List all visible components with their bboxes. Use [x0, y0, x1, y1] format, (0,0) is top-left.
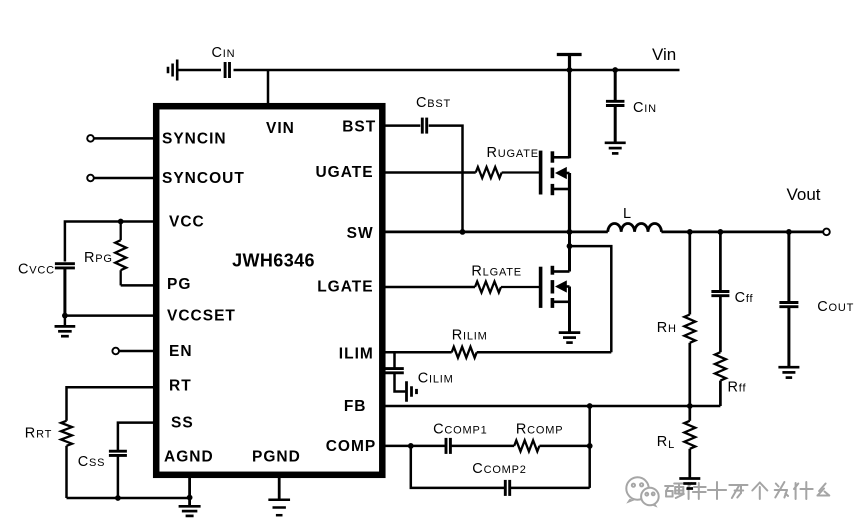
- capacitor Cff: [711, 232, 753, 352]
- wire ILIM sense to SW node: [570, 246, 612, 352]
- node CSS / ground rail: [115, 495, 121, 501]
- pin SS label: [171, 415, 194, 432]
- svg-text:RLGATE: RLGATE: [471, 264, 522, 280]
- wire VCC pin to CVCC branch: [65, 222, 156, 262]
- net label Vin: [652, 45, 676, 64]
- wire RT to RRT: [67, 387, 157, 421]
- resistor RCOMP: [514, 422, 590, 452]
- pin COMP label: [326, 438, 377, 455]
- ground (CIN bypass): [605, 143, 626, 154]
- svg-text:VCCSET: VCCSET: [167, 308, 236, 325]
- svg-text:LGATE: LGATE: [317, 279, 373, 296]
- ground (AGND): [179, 506, 201, 516]
- wire analog ground rail: [67, 497, 190, 500]
- resistor Rff: [715, 352, 747, 406]
- svg-text:RT: RT: [169, 378, 192, 395]
- svg-text:SS: SS: [171, 415, 194, 432]
- svg-text:Vin: Vin: [652, 45, 676, 64]
- svg-text:JWH6346: JWH6346: [232, 251, 315, 271]
- node Vout / COUT: [786, 229, 792, 235]
- wire COMP pin: [382, 445, 446, 448]
- resistor RILIM: [452, 328, 612, 358]
- net label Vout: [787, 185, 821, 204]
- pin BST label: [342, 118, 376, 135]
- svg-text:SYNCIN: SYNCIN: [162, 131, 227, 148]
- node RCOMP / comp net: [587, 443, 593, 449]
- svg-text:VIN: VIN: [266, 120, 295, 137]
- pin UGATE label: [315, 164, 373, 181]
- svg-text:SYNCOUT: SYNCOUT: [162, 170, 245, 187]
- capacitor CIN (top input): [212, 45, 236, 78]
- wire LGATE pin: [382, 286, 475, 289]
- svg-text:RRT: RRT: [25, 426, 52, 442]
- pin SYNCIN label: [162, 131, 227, 148]
- node Vin rail / CIN bypass: [612, 67, 618, 73]
- wire top Vin rail: [234, 69, 680, 72]
- node AGND junction: [187, 495, 193, 501]
- ground (PGND): [268, 500, 290, 515]
- wire PGND pin stem: [278, 474, 281, 500]
- resistor RPG: [84, 222, 126, 286]
- svg-text:CCOMP1: CCOMP1: [433, 422, 487, 438]
- svg-text:CIN: CIN: [633, 100, 657, 116]
- pin SW label: [347, 225, 374, 242]
- node EN terminal: [112, 348, 119, 355]
- transistor Q2 low-side NMOS: [541, 266, 570, 333]
- capacitor CIN (Vin bypass): [606, 70, 657, 143]
- wire SYNCIN: [94, 137, 156, 140]
- pin PG label: [167, 276, 191, 293]
- wire FB pin: [382, 405, 720, 408]
- wire SYNCOUT: [94, 177, 156, 180]
- svg-text:COMP: COMP: [326, 438, 377, 455]
- svg-text:Rff: Rff: [728, 380, 747, 396]
- resistor RLGATE: [471, 264, 540, 293]
- capacitor COUT: [779, 232, 854, 367]
- svg-text:RUGATE: RUGATE: [487, 145, 539, 161]
- svg-text:UGATE: UGATE: [315, 164, 373, 181]
- pin RT label: [169, 378, 192, 395]
- svg-text:RILIM: RILIM: [452, 328, 488, 344]
- wire SS to CSS: [118, 423, 156, 452]
- svg-text:CIN: CIN: [212, 45, 236, 61]
- transistor Q1 high-side NMOS: [541, 151, 570, 232]
- node Vout terminal: [823, 229, 830, 236]
- pin VIN label: [266, 120, 295, 137]
- pin VCCSET label: [167, 308, 236, 325]
- wire UGATE pin: [382, 171, 476, 174]
- ground (input cap return, left of CIN): [168, 60, 177, 81]
- capacitor CBST: [416, 95, 451, 134]
- pin FB label: [344, 398, 367, 415]
- svg-text:CBST: CBST: [416, 95, 451, 111]
- wire comp net vertical to FB: [588, 406, 591, 488]
- node FB / RH / RL: [687, 403, 693, 409]
- svg-text:CILIM: CILIM: [418, 371, 454, 387]
- ground (CVCC): [55, 316, 76, 337]
- svg-text:Vout: Vout: [787, 185, 821, 204]
- wire SW pin: [382, 231, 608, 234]
- ground (CILIM, sideways): [407, 381, 417, 402]
- watermark logo: [626, 477, 659, 507]
- pin ILIM label: [339, 346, 374, 363]
- node FB / comp net: [587, 403, 593, 409]
- node SYNCIN terminal: [87, 135, 94, 142]
- node Vout / Cff: [718, 229, 724, 235]
- wire VIN pin drop: [267, 70, 270, 106]
- node VCC / RPG junction: [118, 219, 124, 225]
- pin VCC label: [169, 214, 205, 231]
- wire L to Vout: [661, 231, 823, 234]
- ground (RL): [679, 479, 700, 489]
- svg-text:VCC: VCC: [169, 214, 205, 231]
- capacitor CCOMP2 branch: [411, 446, 590, 496]
- resistor RRT: [25, 421, 72, 498]
- svg-text:RPG: RPG: [84, 250, 113, 266]
- node SW / CBST return: [460, 229, 466, 235]
- node CVCC / VCCSET junction: [62, 313, 68, 319]
- watermark text: [665, 482, 829, 499]
- wire SW down to Q2 drain: [568, 232, 571, 272]
- svg-text:RH: RH: [657, 320, 677, 336]
- pin SYNCOUT label: [162, 170, 245, 187]
- pin PGND label: [252, 449, 301, 466]
- wire CBST to SW node: [429, 126, 463, 232]
- svg-text:SW: SW: [347, 225, 374, 242]
- pin LGATE label: [317, 279, 373, 296]
- wire AGND pin stem: [188, 474, 191, 506]
- svg-text:L: L: [623, 206, 632, 222]
- svg-text:ILIM: ILIM: [339, 346, 374, 363]
- node Vin rail / Q1 drain: [567, 67, 573, 73]
- svg-text:EN: EN: [169, 343, 193, 360]
- svg-text:CVCC: CVCC: [18, 262, 55, 278]
- svg-text:PGND: PGND: [252, 449, 301, 466]
- op-amp U1 JWH6346 buck controller IC body: [156, 106, 382, 475]
- ground (COUT): [778, 367, 799, 377]
- node Vout / RH: [687, 229, 693, 235]
- svg-text:COUT: COUT: [817, 299, 854, 315]
- pin AGND label: [164, 449, 214, 466]
- svg-text:AGND: AGND: [164, 449, 214, 466]
- resistor RL feedback divider bottom: [657, 406, 696, 479]
- pin EN label: [169, 343, 193, 360]
- wire PG: [121, 284, 156, 287]
- svg-text:BST: BST: [342, 118, 376, 135]
- node COMP branch: [408, 443, 414, 449]
- capacitor CSS: [78, 451, 127, 498]
- svg-text:CCOMP2: CCOMP2: [472, 461, 526, 477]
- node SYNCOUT terminal: [87, 175, 94, 182]
- node Q2 drain / ILIM sense: [567, 243, 573, 249]
- svg-text:RCOMP: RCOMP: [516, 422, 563, 438]
- wire BST pin: [382, 124, 420, 127]
- wire ground to CIN: [176, 69, 221, 72]
- capacitor CVCC: [18, 262, 75, 316]
- resistor RH feedback divider top: [657, 232, 696, 406]
- wire ILIM pin: [382, 351, 452, 354]
- ground (Q2 source): [559, 333, 581, 343]
- svg-text:FB: FB: [344, 398, 367, 415]
- wire EN: [119, 350, 156, 353]
- wire Q1 drain stub with T-bar: [557, 55, 582, 159]
- wire VCCSET: [65, 314, 156, 317]
- resistor RUGATE: [476, 145, 540, 178]
- capacitor CCOMP1: [433, 422, 514, 454]
- svg-text:CSS: CSS: [78, 454, 106, 470]
- node SW / Q1 source: [567, 229, 573, 235]
- inductor L: [608, 206, 662, 232]
- capacitor CILIM: [385, 352, 453, 391]
- svg-text:PG: PG: [167, 276, 191, 293]
- svg-text:Cff: Cff: [735, 290, 754, 306]
